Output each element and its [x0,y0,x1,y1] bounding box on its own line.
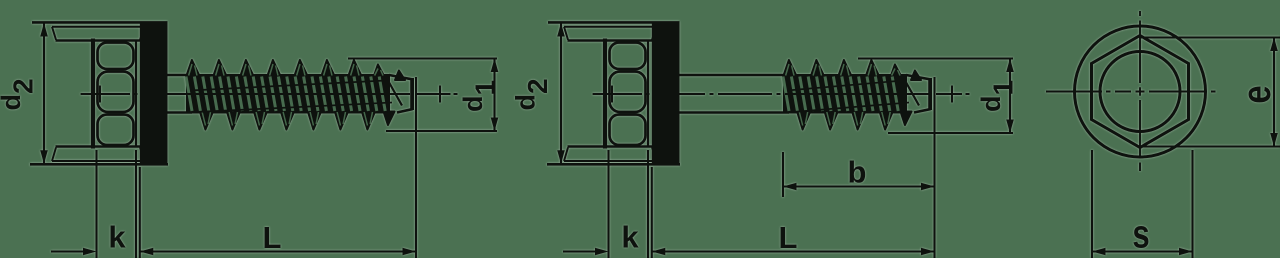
view1 thread core (filled) [186,74,390,114]
view1 d1 arrow down [491,118,499,132]
view1 d2 arrow down [40,150,48,164]
view1 washer rim bottom-right slant [140,148,145,162]
view1 head bottom edge [56,145,142,148]
view2 b extension line left [782,152,784,197]
view1 centerline [81,93,458,95]
view2 washer rim top-left slant [564,27,568,40]
view1 k arrow [83,248,97,256]
view2 shank bottom line [680,111,790,114]
view2 L dimension line [652,250,935,252]
view1 washer rim top-left slant [52,27,56,40]
view3 e top extension line [1140,37,1280,39]
view3 e arrow down [1270,133,1278,147]
view1 shank bottom line [168,111,193,114]
view2 head left face [603,39,607,149]
view2 k arrow [595,248,609,256]
view1 washer rim bottom-left slant [52,148,56,162]
view1 d2 arrow up [40,23,48,37]
svg-text:L: L [263,220,282,255]
view2 thread flank slits [783,77,898,112]
view2 crest inner lines [786,64,900,126]
view1 L dimension line [140,250,416,252]
view1 d2 bottom extension line [30,163,168,166]
view3 e arrow up [1270,38,1278,52]
view3 e dimension line [1273,38,1275,147]
view3 horizontal centerline [1046,91,1216,93]
view1 crest inner lines [189,64,383,126]
view2 head middle facet [610,72,646,113]
view2 sealing washer (filled) [652,22,680,166]
view1 k extension line left [95,150,97,258]
view2 d1 dimension line [1009,59,1011,134]
view1 d2 top extension line [32,21,168,24]
view3 s arrow left [1092,248,1106,256]
view3 s arrow right [1179,248,1193,256]
view2 shank top line [680,74,790,77]
view1 k leader line [51,250,84,252]
view1 sealing washer (filled) [140,22,168,166]
view2 tip end face [929,78,932,110]
view1 head middle facet [98,72,134,113]
view1 tip end face [411,78,414,110]
view3 s extension line left [1091,150,1093,258]
view2 k extension line left [607,150,609,258]
view1 d1 arrow up [491,59,499,73]
view2 b arrow right [921,183,935,191]
view1 shank top line [168,74,193,77]
view1 tip cone [389,75,412,113]
view2 b dimension line [783,185,935,187]
view2 centerline [593,93,970,95]
view1 L arrow left [140,248,154,256]
view3 head chamfer circle [1100,52,1180,132]
view2 tip cone [906,75,930,113]
view1 L arrow right [403,248,417,256]
view1 thread crests top [186,60,405,80]
view3 e bottom extension line [1140,146,1280,148]
svg-text:s: s [1132,212,1149,257]
view2 washer rim bottom-left slant [564,148,568,162]
view1 washer bearing extension line [139,167,141,258]
view1 head top facet [98,43,134,70]
view2 b arrow left [783,183,797,191]
view2 head bottom edge [568,145,654,148]
view2 thread root helix lines [787,81,909,113]
view2 washer rim top-right slant [652,27,657,40]
view3 washer outer circle [1075,26,1206,157]
view2 d2 arrow up [557,23,565,37]
svg-text:e: e [1234,85,1279,103]
view2 washer rim bottom-right slant [652,148,657,162]
view2 washer bearing extension line [651,167,653,258]
view1 head bottom facet [98,115,134,146]
view1 washer rim top-right slant [140,27,145,40]
view1 thread flank slits [186,77,385,112]
view2 d2 arrow down [557,150,565,164]
svg-text:b: b [848,155,867,190]
view2 L arrow right [921,248,935,256]
view1 washer rim top edge [52,26,145,28]
view2 head right face line [647,40,649,148]
view1 thread crests bottom [200,111,395,130]
view2 thread crests bottom [797,111,912,130]
view2 d2 dimension line [560,22,562,164]
view2 d1 arrow up [1006,59,1014,73]
view1 head top edge [56,39,142,42]
view1 d2 dimension line [43,22,45,164]
view2 thread crests top [783,60,921,80]
view1 head right face extension line [135,150,137,258]
view2 washer rim top edge [564,26,657,28]
svg-text:k: k [108,220,126,255]
svg-text:L: L [779,220,798,255]
view2 d2 top extension line [548,21,680,24]
view2 d1 arrow down [1006,120,1014,134]
view2 washer rim bottom edge [564,160,657,162]
view1 thread root helix lines [190,81,392,113]
view2 d2 bottom extension line [547,163,680,166]
view2 head top edge [568,39,654,42]
view1 head right face line [135,40,137,148]
view1 d1 dimension line [493,59,495,132]
view1 washer rim bottom edge [52,160,145,162]
view2 head right face extension line [647,150,649,258]
view2 thread core (filled) [783,74,907,114]
view3 s extension line right [1191,150,1193,258]
view2 tip last flank line [903,77,919,106]
view2 L arrow left [652,248,666,256]
view2 tip extension line [933,77,935,258]
view2 head top facet [610,43,646,70]
view1 d1 top extension line [348,58,497,60]
view3 hexagon [1092,36,1189,148]
view2 k leader line [563,250,596,252]
view1 tip last flank line [386,77,402,106]
view1 head left face [91,39,95,149]
view1 d1 bottom extension line [386,130,497,132]
view3 s dimension line [1092,250,1193,252]
view1 tip extension line [415,77,417,258]
view3 vertical centerline [1139,11,1141,171]
svg-text:k: k [621,220,639,255]
view2 d1 top extension line [858,58,1013,60]
view2 head bottom facet [610,115,646,146]
view2 d1 bottom extension line [888,132,1013,134]
